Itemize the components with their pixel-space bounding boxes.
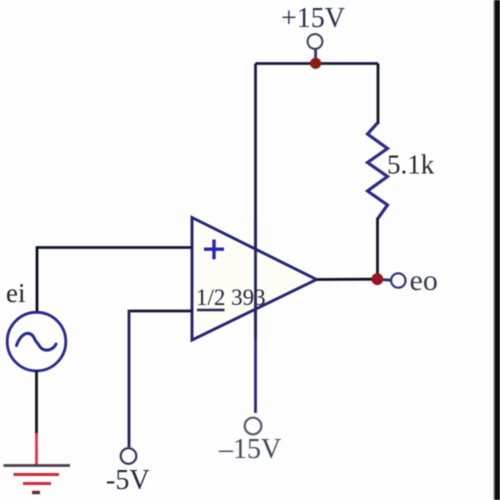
wire: output from op-amp tip to junction <box>317 278 373 281</box>
eo terminal circle <box>391 273 405 287</box>
wire: left supply vertical from +15V rail down to op-amp <box>254 64 257 221</box>
underline under 1/2 <box>197 309 225 312</box>
wire: top supply rail <box>256 62 379 65</box>
supply wire redrawn over triangle <box>254 219 257 339</box>
svg-text:-5V: -5V <box>106 465 150 496</box>
resistor R 5.1k zigzag <box>368 123 388 219</box>
source ei circle <box>7 312 66 371</box>
ground tick <box>32 491 40 494</box>
svg-text:–15V: –15V <box>218 434 281 465</box>
wire: resistor bottom lead to output junction <box>376 218 379 279</box>
sine wave inside source <box>17 333 57 350</box>
wire: red segment to ground <box>35 433 38 465</box>
ground bar 2 <box>14 473 60 476</box>
junction dot at output <box>371 273 383 285</box>
-15V terminal circle <box>245 418 262 435</box>
wire: -5V vertical <box>128 310 131 447</box>
right edge black strip <box>495 0 500 500</box>
junction dot at +15V rail <box>310 58 321 69</box>
ground bar 3 <box>23 482 51 485</box>
wire: +15V terminal to rail <box>314 49 317 59</box>
wire: junction to eo terminal <box>380 278 391 282</box>
wire: source bottom to ground (black part) <box>35 371 38 436</box>
wire: from ei source up <box>36 246 39 312</box>
op-amp plus symbol <box>204 240 224 260</box>
-5V terminal circle <box>121 448 137 464</box>
svg-text:ei: ei <box>6 278 26 308</box>
svg-text:1/2 393: 1/2 393 <box>196 285 266 310</box>
svg-text:5.1k: 5.1k <box>387 150 435 180</box>
op-amp U1 triangle <box>192 218 317 341</box>
+15V terminal circle <box>308 34 323 49</box>
wire: non-inverting input <box>37 246 192 249</box>
svg-text:+15V: +15V <box>281 3 345 34</box>
svg-text:eo: eo <box>410 264 438 297</box>
wire: left supply vertical from op-amp down to -15V terminal <box>254 220 257 413</box>
wire: right vertical top lead to resistor <box>377 64 380 125</box>
wire: inverting input horizontal <box>129 310 192 313</box>
ground bar 1 <box>4 464 71 467</box>
